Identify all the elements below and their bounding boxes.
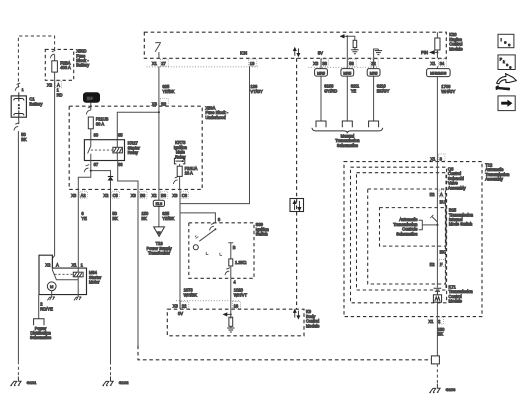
- svg-text:C8: C8: [182, 193, 188, 198]
- ECM PIN output with resistor: [436, 32, 438, 38]
- ground G103: [429, 384, 440, 393]
- wire from F11UB to relay pin 30: [90, 129, 92, 140]
- ground G101: [10, 377, 21, 386]
- svg-text:1.3KΩ: 1.3KΩ: [235, 260, 246, 265]
- svg-text:YE/BK: YE/BK: [162, 216, 174, 221]
- svg-text:Module: Module: [306, 323, 320, 328]
- ignition switch S39 dashed box: [189, 223, 254, 278]
- wire from IMS down to K71: [436, 225, 438, 288]
- svg-text:87: 87: [94, 162, 99, 167]
- svg-text:X3: X3: [131, 193, 137, 198]
- wire 1708 WH/GY down to transmission: [436, 77, 438, 162]
- svg-text:C5: C5: [113, 193, 119, 198]
- battery C1 box: [11, 96, 26, 117]
- K71 TCM connector symbol: [433, 288, 441, 302]
- wire pin 86 to X3 B3: [118, 161, 138, 190]
- svg-text:Module: Module: [449, 299, 463, 304]
- wire 625 YE/BK inside X50A: [158, 106, 160, 189]
- svg-text:Battery: Battery: [29, 101, 43, 106]
- serial data in-line connector box: [290, 199, 304, 212]
- S39 contact B with resistor 1.3K: [228, 243, 233, 259]
- svg-text:G102: G102: [119, 380, 130, 385]
- svg-text:X1: X1: [72, 263, 78, 268]
- svg-text:MR5: MR5: [317, 71, 325, 75]
- svg-text:G101: G101: [27, 380, 38, 385]
- wire 1 RD from X50D to starter motor: [52, 80, 54, 268]
- wire 2 RD/YE: [38, 295, 40, 319]
- splice MR5 (2): [341, 69, 354, 77]
- diode (suppression): [108, 176, 113, 178]
- legend icon 1 (Loc): [498, 34, 514, 47]
- svg-text:5V: 5V: [318, 51, 323, 56]
- svg-text:16: 16: [234, 303, 239, 308]
- splice MR5 (3): [367, 69, 380, 77]
- ECM starter driver switch symbol: [155, 43, 161, 59]
- BCM internal ground: [227, 328, 234, 332]
- dashed wire to G103: [436, 364, 438, 384]
- svg-text:Schematics: Schematics: [337, 143, 358, 148]
- svg-text:Relay: Relay: [128, 150, 139, 155]
- BCM input arrow on 1020 circuit: [227, 313, 231, 315]
- svg-text:B8: B8: [161, 193, 167, 198]
- svg-text:e: e: [506, 63, 508, 67]
- wire 6 YE from X3 A2 to starter X1 1: [77, 189, 79, 268]
- svg-text:A2: A2: [81, 193, 87, 198]
- connector dotted line below X3 pins: [309, 66, 379, 68]
- svg-text:BK: BK: [112, 216, 118, 221]
- B15 switch contact: [432, 216, 438, 222]
- svg-text:X1: X1: [152, 61, 158, 66]
- connector dotted line below ECM pins: [147, 66, 259, 68]
- relay KR27 box: [84, 140, 124, 161]
- transmission internal mode switch B15 dashed box: [380, 208, 447, 247]
- wire 625 YE/BK from X1 27 to X50A X3 B2: [158, 66, 160, 106]
- svg-text:19: 19: [250, 61, 255, 66]
- battery internal plates: [14, 92, 25, 117]
- wire 6110 to MR5: [373, 58, 375, 121]
- svg-text:M: M: [158, 231, 161, 235]
- svg-text:X1: X1: [428, 319, 434, 324]
- svg-text:BK/GY: BK/GY: [377, 88, 390, 93]
- wire 1020 WH/VT from S39 to BCM: [230, 278, 232, 309]
- svg-text:X1: X1: [430, 156, 436, 161]
- wire pin 85 to coil: [116, 140, 118, 161]
- svg-text:Motor: Motor: [89, 280, 100, 285]
- fuse block X50A dashed box: [69, 106, 202, 189]
- BCM pull-down resistor: [230, 309, 232, 318]
- starter solenoid contact: [52, 268, 78, 280]
- svg-text:MR5: MR5: [343, 71, 351, 75]
- svg-text:X2: X2: [47, 82, 53, 87]
- wire ignition feed from X3 C8 node to S39 and BCM: [179, 189, 181, 309]
- svg-text:400 A: 400 A: [60, 65, 71, 70]
- svg-text:A: A: [440, 192, 443, 197]
- svg-text:X3: X3: [152, 101, 158, 106]
- wire below fuse inside X50D: [54, 72, 56, 80]
- KR73 relay contact reference symbol: [174, 158, 184, 164]
- svg-text:Assembly: Assembly: [485, 177, 504, 182]
- legend icon 3 (repair arrow with wrench): [496, 74, 517, 91]
- svg-text:YE: YE: [351, 88, 357, 93]
- wire inside transmission (from X1 3 to IMS): [436, 162, 438, 225]
- pin A dotted bracket: [56, 81, 62, 88]
- starter motor M circle: [47, 282, 56, 291]
- svg-text:E2: E2: [430, 192, 436, 197]
- svg-text:Mode Switch: Mode Switch: [449, 222, 473, 227]
- starter motor M64 box: [39, 255, 87, 294]
- svg-text:86: 86: [118, 162, 123, 167]
- control solenoid valve assembly Q8 dashed box: [351, 167, 447, 303]
- svg-text:Module: Module: [449, 46, 463, 51]
- svg-text:Schematics: Schematics: [30, 335, 51, 340]
- wire X1 1 into coil and coil return: [77, 268, 79, 295]
- S39 wiper circle: [193, 245, 198, 250]
- svg-text:I: I: [501, 38, 502, 42]
- wire 50 BK from X2 C5 to G102: [110, 189, 112, 361]
- splice MH8/MH9: [427, 69, 451, 77]
- wire pin 87 branch to X3 A2: [78, 171, 91, 190]
- inner assembly dashed box level 4: [368, 189, 446, 284]
- relay KR27 coil: [113, 147, 123, 153]
- svg-text:PIN: PIN: [421, 50, 428, 55]
- svg-text:X3: X3: [313, 61, 319, 66]
- wire X1 34 to splice MH8/MH9: [436, 66, 438, 68]
- svg-text:A: A: [56, 263, 59, 268]
- ECM internal ground (6111): [351, 50, 358, 54]
- svg-text:WH/BK: WH/BK: [184, 292, 198, 297]
- starter ground under motor: [47, 295, 55, 301]
- serial data arrows at ECM: [294, 48, 300, 56]
- starter solenoid coil: [73, 272, 83, 277]
- svg-text:X2: X2: [103, 193, 109, 198]
- svg-text:YE: YE: [81, 216, 87, 221]
- connector terminal above fuse F2BA: [50, 50, 55, 58]
- svg-text:X2: X2: [45, 263, 51, 268]
- svg-text:B: B: [233, 245, 236, 250]
- svg-text:38: 38: [322, 61, 327, 66]
- wire 150 BK from X3 B3 to ground bus: [137, 189, 139, 345]
- svg-text:B3: B3: [140, 193, 146, 198]
- svg-text:WH/GY: WH/GY: [441, 89, 455, 94]
- wire KR73 to fuse F18UA: [179, 164, 181, 166]
- ECM internal ground (6110): [374, 49, 379, 58]
- wire from pin 87 with connector: [90, 161, 92, 171]
- svg-text:KL8: KL8: [156, 202, 163, 206]
- splice MR5 (1): [315, 69, 328, 77]
- svg-text:30: 30: [94, 133, 99, 138]
- svg-text:BK: BK: [440, 249, 446, 254]
- svg-text:BU: BU: [440, 200, 446, 205]
- svg-text:Schematics: Schematics: [396, 231, 417, 236]
- svg-text:27: 27: [161, 61, 166, 66]
- ground junction box: [431, 356, 439, 364]
- svg-text:M: M: [50, 284, 53, 289]
- svg-text:X3: X3: [172, 193, 178, 198]
- svg-text:GY/RD: GY/RD: [324, 88, 337, 93]
- svg-text:o: o: [509, 65, 511, 69]
- svg-text:X3: X3: [173, 304, 179, 309]
- wire 50 BK battery negative to G101: [17, 131, 19, 361]
- svg-text:BK: BK: [21, 137, 27, 142]
- svg-text:BK: BK: [141, 216, 147, 221]
- svg-text:Battery: Battery: [76, 63, 90, 68]
- off-page terminal to power distribution: [34, 319, 44, 326]
- fuse F18UA 10 A: [177, 166, 182, 176]
- connector terminal above fuse F11UB: [86, 107, 91, 115]
- relay mechanical dashed link: [91, 149, 113, 151]
- svg-text:WH/VT: WH/VT: [234, 292, 248, 297]
- connector terminal at battery positive: [15, 83, 20, 91]
- svg-text:ICN: ICN: [240, 51, 247, 56]
- svg-text:Assembly: Assembly: [448, 185, 467, 190]
- starter ground under coil: [74, 295, 82, 301]
- svg-text:B+: B+: [87, 96, 93, 101]
- wire battery positive dashed lead to fuse block X50D: [18, 36, 54, 87]
- off-page terminal (6110): [369, 121, 379, 127]
- connector terminal at battery negative: [18, 117, 20, 124]
- legend icon 2 (Pke): [498, 55, 515, 70]
- brace to manual transmission schematics: [312, 128, 383, 134]
- B+ feed symbol: [84, 93, 100, 103]
- transformer T18 symbol: [154, 227, 165, 237]
- svg-text:k: k: [503, 60, 505, 64]
- svg-text:E2: E2: [430, 262, 436, 267]
- fuse F2BA 400 A: [54, 55, 56, 61]
- body control module K9 dashed box: [167, 309, 304, 336]
- svg-text:34: 34: [440, 61, 445, 66]
- legend icon 4 (forward arrow): [498, 96, 515, 111]
- ECM sense arrow on 6111 circuit: [342, 35, 347, 37]
- off-page terminal (6108): [316, 121, 326, 127]
- wire 139 VT/GY from ICN down and left to ignition feed node: [180, 66, 250, 203]
- svg-text:0V: 0V: [178, 311, 183, 316]
- svg-text:Underhood: Underhood: [205, 115, 226, 120]
- svg-text:X1: X1: [430, 61, 436, 66]
- svg-text:RD/YE: RD/YE: [40, 306, 53, 311]
- S39 position marks: [206, 252, 222, 256]
- svg-text:X3: X3: [71, 193, 77, 198]
- wire 625 junction to relay pin 85: [117, 112, 159, 140]
- svg-text:X2: X2: [152, 193, 158, 198]
- serial data dashed line ECM to BCM: [296, 58, 298, 309]
- svg-text:YE/BK: YE/BK: [162, 89, 174, 94]
- ECM pull-up resistor on 6111 circuit: [347, 36, 355, 40]
- svg-text:1: 1: [22, 88, 24, 92]
- wire 6111 to MR5: [346, 36, 348, 121]
- link to automatic transmission controls schematics: [422, 224, 437, 226]
- svg-text:MH8/MH9: MH8/MH9: [430, 72, 446, 76]
- engine control module K20 dashed box: [144, 32, 446, 58]
- svg-text:56: 56: [349, 61, 354, 66]
- svg-text:85: 85: [118, 133, 123, 138]
- wire below F18UA with connector: [179, 176, 181, 189]
- off-page terminal (6111): [342, 121, 352, 127]
- fuse F11UB 30 A: [88, 117, 93, 129]
- svg-text:G103: G103: [446, 387, 457, 392]
- wire 6108 to MR5: [320, 58, 322, 121]
- wire pin 87 branch to diode: [91, 171, 111, 177]
- splice KL8: [158, 189, 160, 227]
- svg-text:o: o: [504, 41, 506, 45]
- svg-text:BK: BK: [438, 332, 444, 337]
- inner assembly dashed box level 3: [357, 173, 447, 290]
- svg-text:30 A: 30 A: [96, 121, 104, 126]
- svg-text:22: 22: [182, 304, 187, 309]
- S39 switch blade: [199, 229, 215, 241]
- svg-text:10 A: 10 A: [185, 171, 193, 176]
- relay KR27 switch contact: [88, 140, 91, 161]
- svg-text:c: c: [508, 43, 510, 47]
- BCM connector dotted line: [176, 300, 241, 302]
- automatic transmission assembly T12 dashed box: [344, 162, 482, 317]
- svg-text:VT/GY: VT/GY: [250, 89, 263, 94]
- svg-text:MR5: MR5: [370, 71, 378, 75]
- fuse block X50D dashed box: [45, 49, 73, 80]
- svg-text:RD: RD: [57, 92, 63, 97]
- ground G102: [102, 377, 113, 386]
- svg-text:Transformer: Transformer: [148, 251, 171, 256]
- serial data arrows at BCM: [294, 310, 300, 319]
- S39 input connector terminal: [210, 223, 215, 231]
- wire from K71 to X1 2: [436, 302, 438, 356]
- starter solenoid dashed link: [54, 273, 73, 275]
- svg-text:Switch: Switch: [256, 232, 269, 237]
